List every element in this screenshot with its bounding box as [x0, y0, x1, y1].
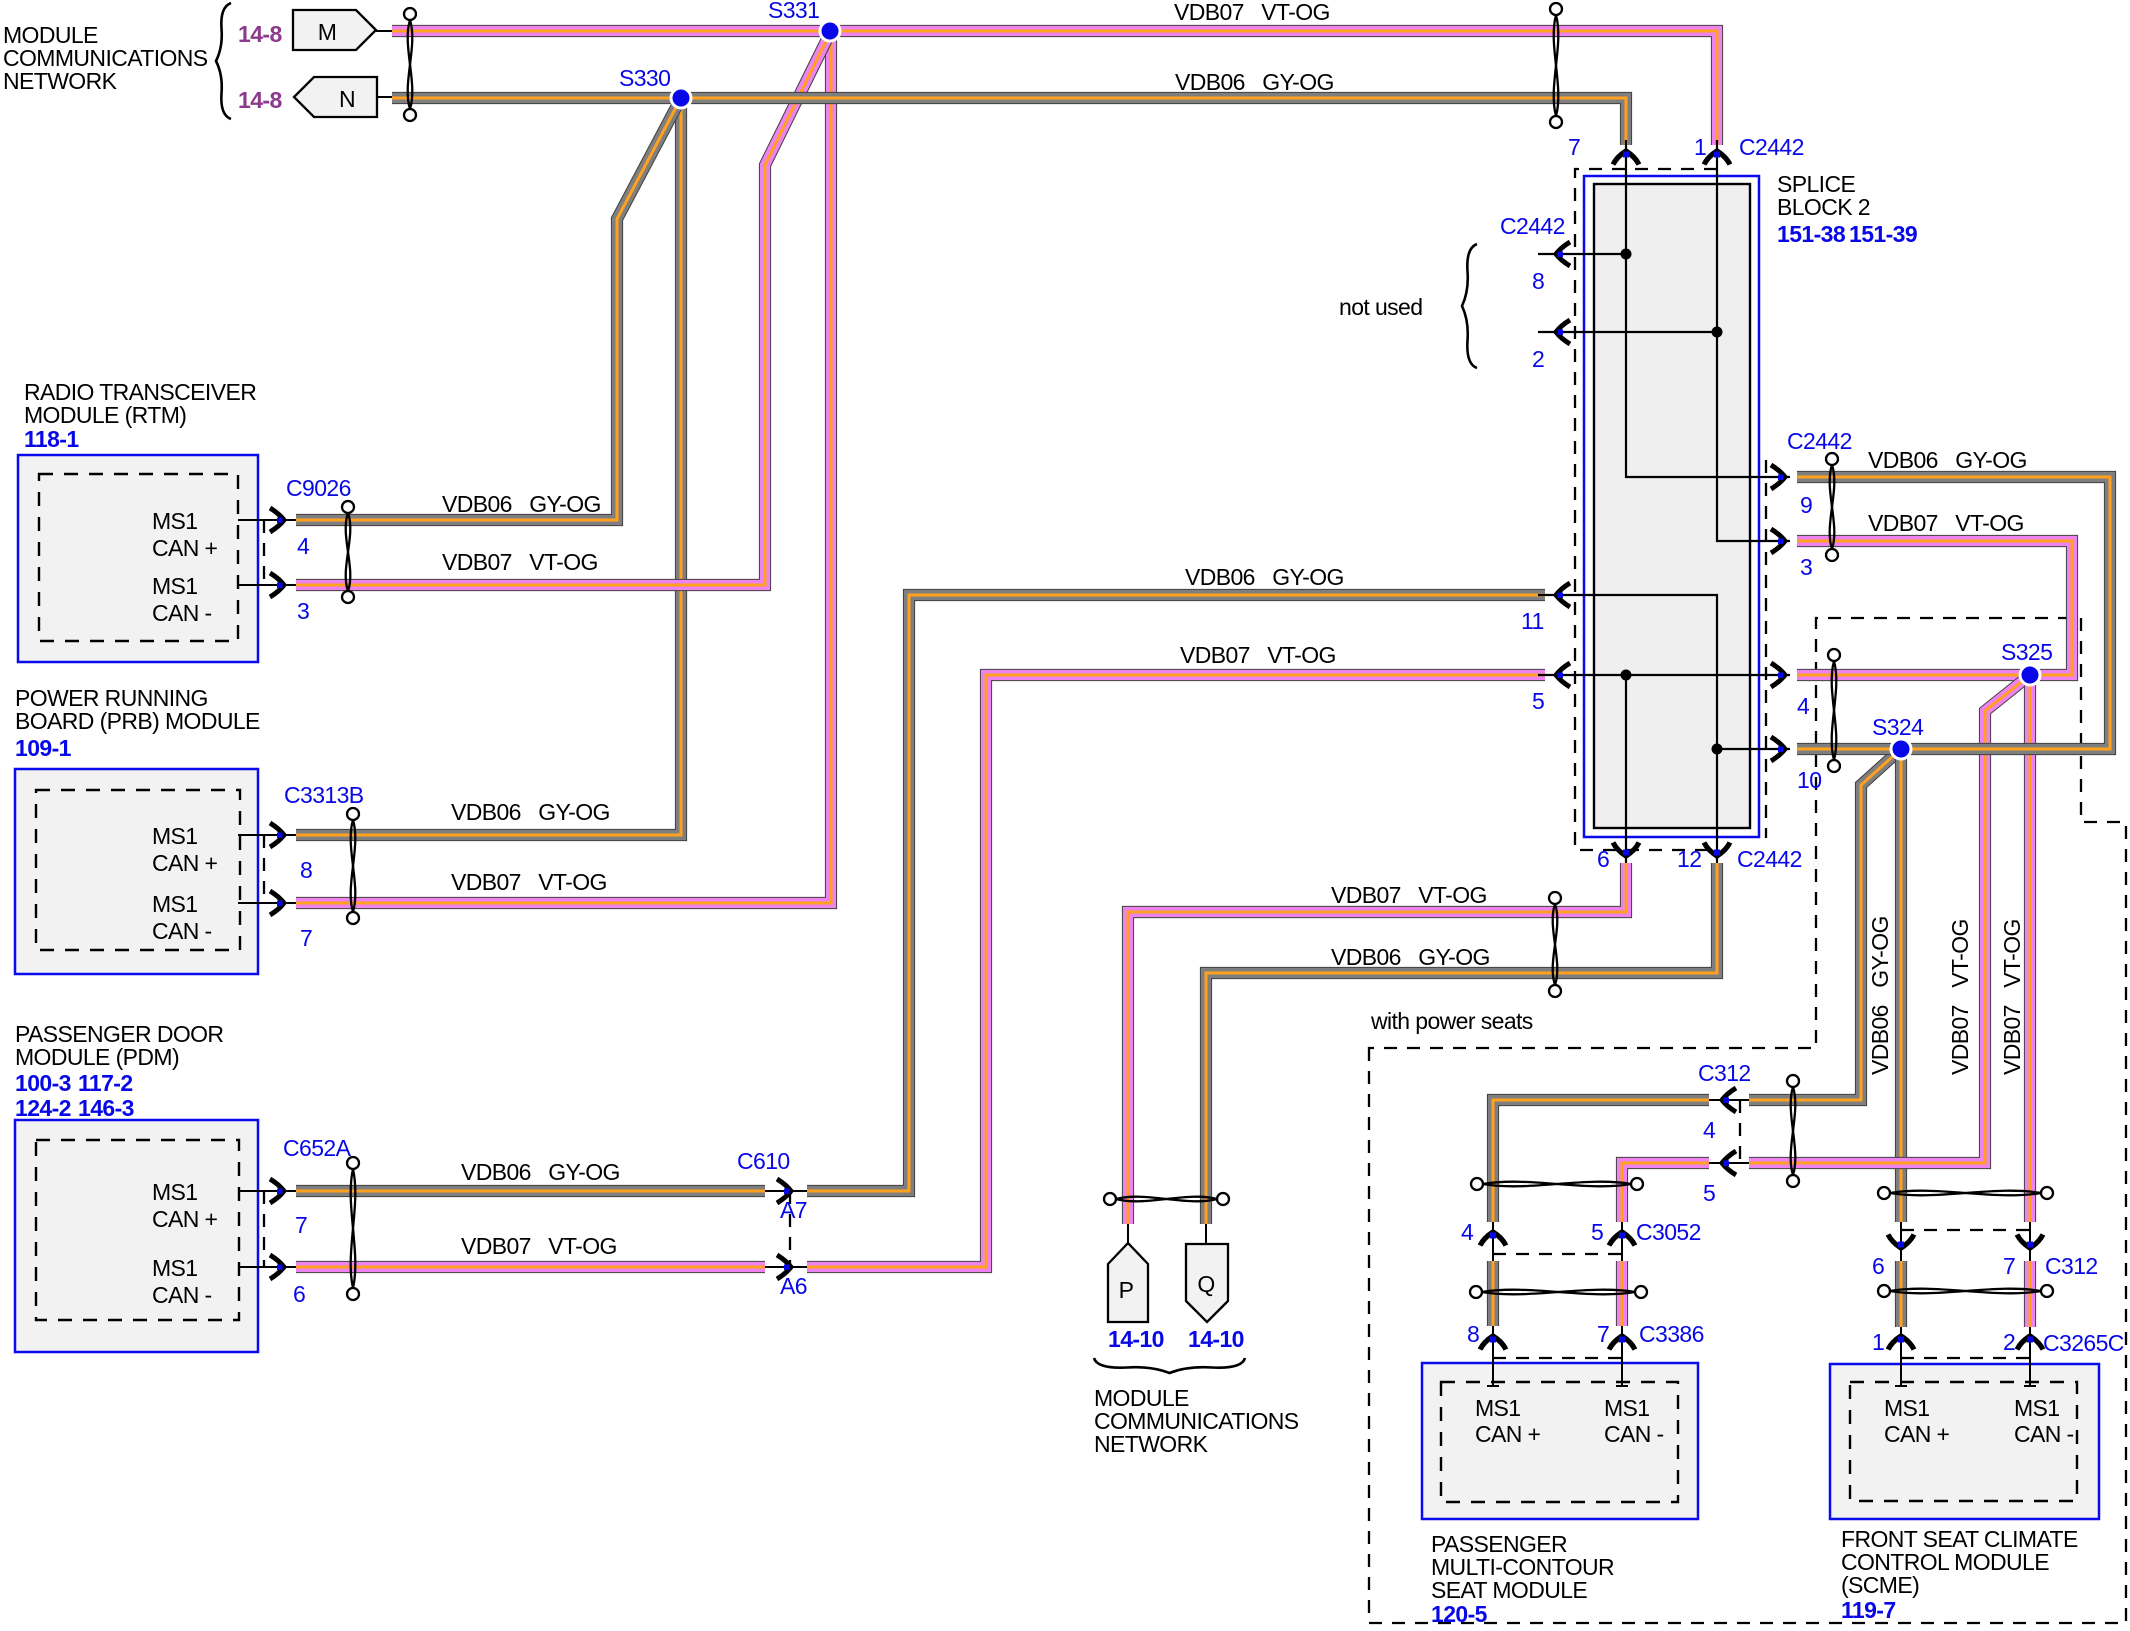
wire VDB06 GY-OG S330 branch to PRB pin 8: [296, 98, 681, 835]
splice block internal net pin5-4-6: [1538, 670, 1790, 864]
svg-text:MS1: MS1: [152, 823, 198, 849]
svg-text:5: 5: [1532, 688, 1544, 714]
PRB pin 8 lead: [238, 834, 296, 836]
SCME pin C312-7 / C3265C-2 lead: [2024, 1222, 2036, 1386]
twisted-pair symbol: [1828, 649, 1840, 772]
svg-text:CAN -: CAN -: [152, 1282, 212, 1308]
wire VDB06 GY-OG PDM pin 7 to splice pin 11: [296, 1185, 765, 1197]
twisted-pair symbol: [1104, 1193, 1229, 1205]
wire VDB07 VT-OG S325 branch down to C312 pin 7: [2024, 675, 2036, 1222]
svg-text:A6: A6: [780, 1273, 807, 1299]
svg-text:CAN -: CAN -: [152, 600, 212, 626]
svg-text:CAN +: CAN +: [1884, 1421, 1950, 1447]
network N tag lead: [377, 96, 392, 98]
connector C3386 dashed line: [1493, 1357, 1622, 1359]
splice left pin 11 lead: [1538, 594, 1560, 596]
connector P lead: [1127, 1224, 1129, 1243]
svg-text:VDB06 GY-OG: VDB06 GY-OG: [461, 1159, 620, 1185]
module PRB box: [15, 769, 258, 974]
splice left pin 5 lead: [1538, 674, 1560, 676]
wire VDB06 GY-OG S324 branch to C312 pin 4: [1749, 749, 1901, 1100]
PMCSM pin C3052-5 / C3386-7 lead: [1616, 1222, 1628, 1386]
module PRB title: [15, 685, 260, 761]
C3265C pin 1 arrow: [1888, 1336, 1914, 1350]
svg-text:C652A: C652A: [283, 1135, 352, 1161]
svg-text:NETWORK: NETWORK: [3, 68, 118, 94]
svg-text:9: 9: [1800, 492, 1812, 518]
connector Q lead: [1205, 1224, 1207, 1244]
svg-text:C2442: C2442: [1739, 134, 1804, 160]
svg-text:12: 12: [1677, 846, 1701, 872]
module RTM pin names: [152, 508, 218, 626]
svg-text:1: 1: [1872, 1329, 1884, 1355]
svg-text:MS1: MS1: [1604, 1395, 1650, 1421]
svg-text:7: 7: [300, 925, 312, 951]
svg-text:S331: S331: [768, 0, 819, 23]
svg-text:120-5: 120-5: [1431, 1601, 1488, 1627]
svg-text:6: 6: [293, 1281, 305, 1307]
splice block internal net pin7-8-9: [1538, 140, 1790, 477]
svg-text:S330: S330: [619, 65, 670, 91]
svg-text:CAN -: CAN -: [152, 918, 212, 944]
splice pin 3 arrow: [1771, 529, 1785, 553]
wire VDB06 GY-OG stub C312 to C3265C: [1895, 1261, 1907, 1327]
svg-text:MS1: MS1: [152, 1179, 198, 1205]
svg-text:118-1: 118-1: [24, 426, 79, 452]
twisted-pair symbol: [1471, 1178, 1643, 1190]
svg-text:MS1: MS1: [152, 1255, 198, 1281]
C3052 pin 5 arrow: [1609, 1232, 1635, 1246]
brace module communications network bottom: [1094, 1358, 1245, 1373]
splice block internal net pin1-2-3: [1538, 140, 1790, 541]
splice S324: [1891, 739, 1911, 759]
svg-text:VDB06 GY-OG: VDB06 GY-OG: [1175, 69, 1334, 95]
wire VDB07 VT-OG stub C3052 to C3386: [1616, 1261, 1628, 1326]
svg-text:VDB06 GY-OG: VDB06 GY-OG: [442, 491, 601, 517]
wire VDB07 VT-OG splice pin 6 to connector P: [1128, 863, 1626, 1224]
splice block 2: [1584, 176, 1759, 837]
PMCSM pin C3052-4 / C3386-8 lead: [1487, 1222, 1499, 1386]
svg-text:VDB07 VT-OG: VDB07 VT-OG: [1180, 642, 1336, 668]
module PDM box: [15, 1120, 258, 1352]
svg-text:VDB07 VT-OG: VDB07 VT-OG: [442, 549, 598, 575]
svg-text:2: 2: [2003, 1329, 2015, 1355]
splice pin 1 arrow: [1704, 151, 1730, 165]
connector C3265C dashed line: [1901, 1357, 2030, 1359]
svg-text:MS1: MS1: [152, 573, 198, 599]
svg-text:(SCME): (SCME): [1841, 1572, 1919, 1598]
connector C2442 dashed boundary: [1575, 169, 1766, 850]
network connector tag N: [294, 77, 377, 117]
svg-text:CAN +: CAN +: [152, 535, 218, 561]
svg-text:7: 7: [295, 1212, 307, 1238]
module PMCSM title: [1431, 1531, 1614, 1627]
svg-text:14-8: 14-8: [238, 21, 282, 47]
wire VDB06 GY-OG splice pin 9 loop to pin 10: [1797, 477, 2110, 749]
svg-text:3: 3: [1800, 554, 1812, 580]
module RTM box: [18, 455, 258, 662]
svg-text:8: 8: [1532, 268, 1544, 294]
svg-text:7: 7: [1568, 134, 1580, 160]
svg-text:4: 4: [1797, 693, 1810, 719]
splice top pin 7 lead: [1625, 140, 1627, 184]
svg-text:C312: C312: [1698, 1060, 1751, 1086]
SCME pin C312-6 / C3265C-1 lead: [1895, 1222, 1907, 1386]
C312 pin 7 arrow: [2017, 1235, 2043, 1249]
twisted-pair symbol: [1787, 1075, 1799, 1187]
svg-text:C2442: C2442: [1500, 213, 1565, 239]
module PMCSM box: [1422, 1363, 1698, 1519]
svg-text:6: 6: [1872, 1253, 1884, 1279]
connector C312 pins 6-7 dashed line: [1901, 1229, 2030, 1231]
svg-text:BLOCK 2: BLOCK 2: [1777, 194, 1870, 220]
wire VDB06 GY-OG S324 branch down to C312 pin 6: [1895, 749, 1907, 1222]
network connector tag Q: [1186, 1244, 1228, 1322]
svg-text:VDB06 GY-OG: VDB06 GY-OG: [1867, 916, 1893, 1075]
RTM pin 3 lead: [238, 584, 296, 586]
C3265C pin 2 arrow: [2017, 1336, 2043, 1350]
splice pin 8 arrow: [1556, 242, 1570, 266]
svg-text:S324: S324: [1872, 714, 1924, 740]
svg-text:CAN +: CAN +: [152, 1206, 218, 1232]
connector C3052 dashed line: [1493, 1253, 1622, 1255]
PDM pin 7 arrow: [270, 1179, 284, 1203]
C3052 pin 4 arrow: [1480, 1232, 1506, 1246]
svg-text:VDB07 VT-OG: VDB07 VT-OG: [461, 1233, 617, 1259]
PDM pin 6 lead: [238, 1266, 296, 1268]
svg-text:7: 7: [1597, 1321, 1609, 1347]
splice pin 12 arrow: [1704, 843, 1730, 857]
svg-text:MODULE (PDM): MODULE (PDM): [15, 1044, 179, 1070]
RTM pin 4 arrow: [270, 508, 284, 532]
svg-text:C312: C312: [2045, 1253, 2098, 1279]
svg-text:MS1: MS1: [152, 508, 198, 534]
svg-text:C3052: C3052: [1636, 1219, 1701, 1245]
svg-text:S325: S325: [2001, 639, 2052, 665]
module PMCSM pin names: [1475, 1395, 1664, 1447]
twisted-pair symbol: [1549, 892, 1561, 997]
svg-text:109-1: 109-1: [15, 735, 72, 761]
svg-text:5: 5: [1591, 1219, 1603, 1245]
svg-text:1: 1: [1694, 134, 1706, 160]
wire VDB06 GY-OG C312 pin 4 to PMCSM C3052 pin 4: [1493, 1100, 1709, 1222]
svg-text:A7: A7: [780, 1197, 807, 1223]
wire VDB07 VT-OG splice pin 3 loop to S325: [1797, 541, 2072, 675]
svg-text:10: 10: [1797, 767, 1821, 793]
svg-text:151-38: 151-38: [1777, 221, 1846, 247]
svg-text:2: 2: [1532, 346, 1544, 372]
svg-text:14-10: 14-10: [1188, 1326, 1244, 1352]
C3386 pin 7 arrow: [1609, 1336, 1635, 1350]
svg-text:VDB07 VT-OG: VDB07 VT-OG: [1868, 510, 2024, 536]
C312 pin 4 arrow: [1722, 1088, 1736, 1112]
C312 pin 5 arrow: [1722, 1151, 1736, 1175]
wire VDB07 VT-OG S331 branch to PRB pin 7: [296, 31, 831, 903]
svg-text:CAN +: CAN +: [1475, 1421, 1541, 1447]
svg-text:BOARD (PRB) MODULE: BOARD (PRB) MODULE: [15, 708, 260, 734]
connector C652A dashed line: [263, 1191, 265, 1267]
splice pin 5 arrow: [1556, 663, 1570, 687]
module RTM title: [24, 379, 256, 452]
splice S325: [2020, 665, 2040, 685]
C312 pin 5 lead: [1709, 1162, 1749, 1164]
svg-text:C9026: C9026: [286, 475, 351, 501]
brace module communications network top-left: [216, 3, 231, 119]
svg-text:4: 4: [1703, 1117, 1716, 1143]
wire VDB07 VT-OG S325 branch to C312 pin 5: [1749, 675, 2030, 1163]
splice top pin 1 lead: [1716, 140, 1718, 184]
splice pin 10 arrow: [1771, 737, 1785, 761]
svg-text:MODULE (RTM): MODULE (RTM): [24, 402, 186, 428]
svg-text:C610: C610: [737, 1148, 790, 1174]
svg-text:VDB06 GY-OG: VDB06 GY-OG: [1185, 564, 1344, 590]
svg-text:C2442: C2442: [1787, 428, 1852, 454]
module PDM title: [15, 1021, 223, 1121]
PRB pin 7 arrow: [270, 891, 284, 915]
svg-text:CAN -: CAN -: [1604, 1421, 1664, 1447]
twisted-pair symbol: [1550, 3, 1562, 128]
svg-text:CAN +: CAN +: [152, 850, 218, 876]
svg-text:124-2: 124-2: [15, 1095, 71, 1121]
splice pin 9 arrow: [1771, 465, 1785, 489]
with power seats dashed boundary: [1369, 618, 2126, 1623]
twisted-pair symbol: [1878, 1187, 2053, 1199]
module PDM pin names: [152, 1179, 218, 1308]
splice pin 4 arrow: [1771, 663, 1785, 687]
svg-text:MS1: MS1: [1884, 1395, 1930, 1421]
svg-text:11: 11: [1521, 608, 1544, 634]
svg-text:VDB07 VT-OG: VDB07 VT-OG: [451, 869, 607, 895]
connector C9026 dashed line: [263, 520, 265, 585]
svg-text:VDB07 VT-OG: VDB07 VT-OG: [1174, 0, 1330, 25]
svg-text:119-7: 119-7: [1841, 1597, 1896, 1623]
svg-text:3: 3: [297, 598, 309, 624]
connector C3313B dashed line: [263, 835, 265, 903]
twisted-pair symbol: [404, 8, 416, 121]
wire VDB06 GY-OG S330 branch to RTM pin 4: [296, 98, 681, 520]
PRB pin 7 lead: [238, 902, 296, 904]
svg-text:SEAT MODULE: SEAT MODULE: [1431, 1577, 1587, 1603]
C610 A6 arrow: [777, 1255, 791, 1279]
PDM pin 7 lead: [238, 1190, 296, 1192]
svg-text:14-10: 14-10: [1108, 1326, 1164, 1352]
module SCME box: [1830, 1364, 2099, 1519]
svg-text:VDB06 GY-OG: VDB06 GY-OG: [451, 799, 610, 825]
svg-text:4: 4: [1461, 1219, 1474, 1245]
svg-text:MS1: MS1: [1475, 1395, 1521, 1421]
svg-text:14-8: 14-8: [238, 87, 282, 113]
twisted-pair symbol: [1826, 453, 1838, 561]
C610 A6 lead: [765, 1266, 807, 1268]
splice left pin 2 lead: [1538, 331, 1560, 333]
twisted-pair symbol: [347, 808, 359, 924]
svg-text:VDB07 VT-OG: VDB07 VT-OG: [1331, 882, 1487, 908]
svg-text:CAN -: CAN -: [2014, 1421, 2074, 1447]
svg-text:C3386: C3386: [1639, 1321, 1704, 1347]
splice pin 11 arrow: [1556, 583, 1570, 607]
splice pin 7 arrow: [1613, 151, 1639, 165]
twisted-pair symbol: [342, 501, 354, 603]
svg-text:8: 8: [300, 857, 312, 883]
PRB pin 8 arrow: [270, 823, 284, 847]
C610 A7 arrow: [777, 1179, 791, 1203]
module SCME title: [1841, 1526, 2078, 1623]
wire VDB07 VT-OG splice pin 4 to S325: [1797, 669, 2030, 681]
svg-text:100-3: 100-3: [15, 1070, 71, 1096]
splice S330: [671, 88, 691, 108]
svg-text:NETWORK: NETWORK: [1094, 1431, 1209, 1457]
svg-text:Q: Q: [1197, 1271, 1214, 1297]
brace not used: [1462, 244, 1477, 368]
wire VDB06 GY-OG splice pin 12 to connector Q: [1206, 863, 1717, 1224]
twisted-pair symbol: [1878, 1285, 2053, 1297]
splice left pin 8 lead: [1538, 253, 1560, 255]
twisted-pair symbol: [347, 1157, 359, 1300]
svg-text:MS1: MS1: [152, 891, 198, 917]
wire VDB06 GY-OG stub C3052 to C3386: [1487, 1261, 1499, 1326]
connector C610 dashed line: [789, 1191, 791, 1267]
splice S331: [820, 21, 840, 41]
splice block title: [1777, 171, 1917, 247]
svg-text:5: 5: [1703, 1180, 1715, 1206]
svg-text:C2442: C2442: [1737, 846, 1802, 872]
PDM pin 6 arrow: [270, 1255, 284, 1279]
svg-text:C3265C: C3265C: [2043, 1330, 2124, 1356]
svg-text:P: P: [1119, 1277, 1134, 1303]
label MODULE COMMUNICATIONS NETWORK bottom: [1094, 1385, 1299, 1457]
svg-text:VDB07 VT-OG: VDB07 VT-OG: [1947, 919, 1973, 1075]
C312 pin 6 arrow: [1888, 1235, 1914, 1249]
network M tag lead: [376, 30, 392, 32]
splice block internal net pin11-10-12: [1538, 595, 1790, 863]
svg-text:VDB06 GY-OG: VDB06 GY-OG: [1331, 944, 1490, 970]
splice pin 2 arrow: [1556, 320, 1570, 344]
svg-text:4: 4: [297, 533, 310, 559]
splice pin 6 arrow: [1613, 843, 1639, 857]
RTM pin 3 arrow: [270, 573, 284, 597]
svg-text:VDB06 GY-OG: VDB06 GY-OG: [1868, 447, 2027, 473]
C3386 pin 8 arrow: [1480, 1336, 1506, 1350]
svg-text:7: 7: [2003, 1253, 2015, 1279]
label MODULE COMMUNICATIONS NETWORK top-left: [3, 22, 208, 94]
wire VDB07 VT-OG C312 pin 5 to PMCSM C3052 pin 5: [1622, 1163, 1709, 1222]
svg-text:M: M: [318, 19, 337, 45]
svg-text:not used: not used: [1339, 294, 1422, 320]
connector C312 pins 4-5 dashed line: [1739, 1100, 1741, 1163]
svg-text:MS1: MS1: [2014, 1395, 2060, 1421]
svg-text:146-3: 146-3: [78, 1095, 134, 1121]
svg-text:8: 8: [1467, 1321, 1479, 1347]
wire VDB07 VT-OG S331 branch to RTM pin 3: [296, 31, 831, 585]
network connector tag M: [293, 10, 376, 50]
module SCME pin names: [1884, 1395, 2074, 1447]
svg-text:C3313B: C3313B: [284, 782, 364, 808]
network connector tag P: [1108, 1243, 1148, 1322]
module PRB pin names: [152, 823, 218, 944]
wire VDB07 VT-OG network M to splice pin 1: [392, 31, 1717, 145]
C610 A7 lead: [765, 1190, 807, 1192]
RTM pin 4 lead: [238, 519, 296, 521]
twisted-pair symbol: [1470, 1286, 1647, 1298]
wire VDB07 VT-OG stub C312 to C3265C: [2024, 1261, 2036, 1327]
svg-text:N: N: [339, 86, 355, 112]
svg-text:117-2: 117-2: [78, 1070, 133, 1096]
wire VDB06 GY-OG network N to splice pin 7: [392, 98, 1626, 145]
C312 pin 4 lead: [1709, 1099, 1749, 1101]
wire VDB07 VT-OG PDM pin 6 to splice pin 5: [296, 1261, 765, 1273]
svg-text:VDB07 VT-OG: VDB07 VT-OG: [1999, 919, 2025, 1075]
svg-text:with power seats: with power seats: [1370, 1008, 1533, 1034]
svg-text:151-39: 151-39: [1849, 221, 1917, 247]
svg-text:6: 6: [1597, 846, 1609, 872]
